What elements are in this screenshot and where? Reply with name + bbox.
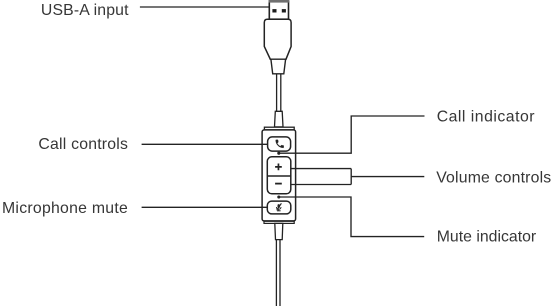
svg-text:Call indicator: Call indicator: [437, 109, 535, 126]
svg-text:Volume controls: Volume controls: [436, 169, 551, 186]
svg-text:Mute indicator: Mute indicator: [437, 229, 537, 246]
svg-text:Microphone mute: Microphone mute: [2, 200, 128, 217]
svg-text:Call controls: Call controls: [38, 136, 128, 153]
svg-text:USB-A input: USB-A input: [41, 2, 129, 19]
